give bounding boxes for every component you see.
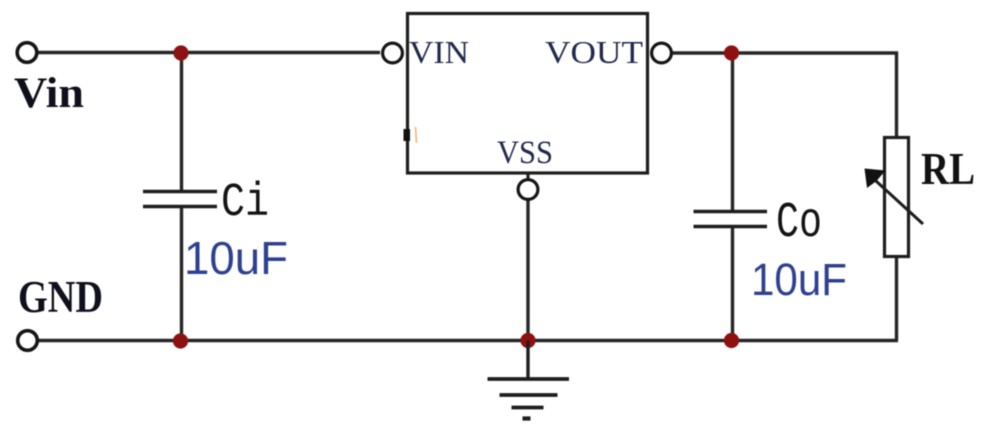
junction dot: bottom rail / VSS ground	[520, 333, 535, 348]
ground symbol	[488, 341, 570, 419]
svg-text:10uF: 10uF	[751, 254, 847, 305]
capacitor Ci: bottom plate	[143, 205, 217, 209]
capacitor Co: top plate	[694, 210, 768, 214]
wire: RL bottom lead to ground rail	[895, 257, 898, 341]
svg-text:VOUT: VOUT	[545, 34, 643, 70]
wire: Co branch from top rail to Co top plate	[731, 53, 734, 211]
svg-text:Co: Co	[776, 195, 822, 252]
pin circle VOUT	[652, 43, 672, 63]
wire: VSS pin stub from box to circle	[526, 173, 529, 180]
svg-text:RL: RL	[921, 143, 975, 194]
wire: VSS to ground rail	[526, 200, 529, 341]
capacitor Ci: top plate	[143, 190, 217, 194]
terminal circle Vin	[17, 43, 37, 63]
junction dot: top rail / Co	[724, 45, 739, 60]
terminal circle GND	[18, 331, 38, 351]
wire: top rail from Vin terminal to VIN pin	[36, 51, 380, 54]
svg-text:VIN: VIN	[409, 34, 469, 70]
wire: top rail from VOUT pin to top-right corner	[672, 53, 897, 138]
wire: Co bottom plate to ground rail	[731, 227, 734, 341]
op-amp U1: regulator IC box	[408, 14, 648, 174]
junction dot: top rail / Ci	[173, 45, 188, 60]
artifact orange mark	[416, 127, 417, 143]
pin circle VIN	[383, 43, 403, 63]
wire: bottom ground rail	[37, 339, 898, 343]
junction dot: bottom rail / Ci	[173, 333, 188, 348]
wire: Ci bottom plate to ground rail	[180, 207, 183, 341]
resistor RL: wiper arrowhead	[865, 169, 886, 189]
artifact tick on box left edge	[404, 129, 411, 141]
svg-text:10uF: 10uF	[184, 232, 288, 284]
junction dot: bottom rail / Co	[724, 333, 739, 348]
svg-text:GND: GND	[18, 272, 103, 322]
capacitor Co: bottom plate	[694, 225, 768, 229]
svg-text:Ci: Ci	[221, 177, 269, 230]
svg-text:Vin: Vin	[14, 70, 84, 117]
wire: Ci branch from top rail to Ci top plate	[180, 53, 183, 192]
pin circle VSS	[518, 180, 538, 200]
resistor RL: wiper diagonal	[876, 181, 923, 224]
resistor RL: variable load, body	[885, 138, 909, 257]
svg-text:VSS: VSS	[497, 135, 553, 171]
